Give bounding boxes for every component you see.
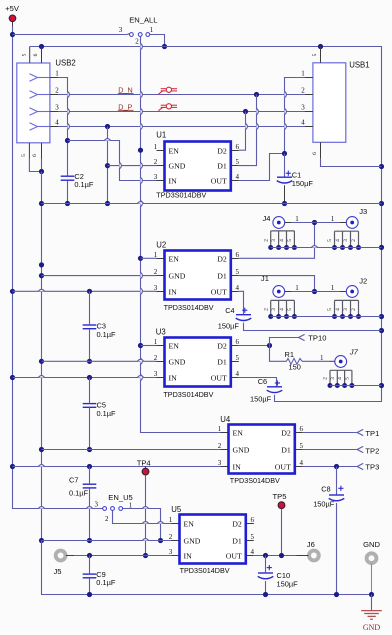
wire C2 to GND bus bbox=[67, 181, 69, 204]
svg-text:4: 4 bbox=[279, 239, 285, 242]
node D_P/U1 D2 junction bbox=[243, 109, 248, 114]
node J1/J2 VBUS junction bbox=[312, 289, 317, 294]
node right bus/J3 pins bbox=[379, 245, 384, 250]
svg-text:1: 1 bbox=[320, 354, 324, 362]
ferrite symbol on D_P bbox=[158, 104, 177, 111]
node GND/U4 GND bus tap bbox=[39, 447, 44, 452]
wire C3 vertical bbox=[89, 291, 91, 361]
svg-text:5: 5 bbox=[345, 377, 351, 380]
svg-text:4: 4 bbox=[55, 119, 59, 127]
svg-text:TP3: TP3 bbox=[365, 463, 379, 472]
wire EN_U5 pin2 to U5 EN bbox=[113, 511, 172, 524]
capacitor C4 bbox=[218, 306, 252, 331]
wire U4 D2 to TP1 bbox=[303, 432, 357, 434]
svg-text:D2: D2 bbox=[217, 341, 227, 350]
wire U4 GND line bbox=[42, 449, 221, 451]
svg-text:TPD3S014DBV: TPD3S014DBV bbox=[164, 303, 215, 312]
connector J5 bbox=[54, 551, 75, 577]
testpoint TP10 bbox=[299, 334, 327, 343]
node C5 top junction bbox=[87, 375, 92, 380]
svg-text:5: 5 bbox=[327, 308, 333, 311]
wire U3 GND line bbox=[42, 360, 157, 362]
svg-text:3: 3 bbox=[55, 104, 59, 112]
svg-text:GND: GND bbox=[184, 536, 201, 545]
wire C5 vertical bbox=[89, 378, 91, 450]
svg-text:150µF: 150µF bbox=[292, 179, 314, 188]
node EN/U1 EN junction bbox=[138, 148, 143, 153]
node GND bus/USB1 pin5 bbox=[318, 44, 323, 49]
svg-text:150µF: 150µF bbox=[313, 499, 335, 508]
svg-text:J4: J4 bbox=[263, 214, 271, 223]
connector USB1 pin stubs bbox=[301, 70, 313, 127]
svg-text:5: 5 bbox=[236, 354, 240, 362]
svg-text:2: 2 bbox=[154, 354, 158, 362]
node GND stray junction bbox=[39, 262, 44, 267]
svg-text:5: 5 bbox=[327, 239, 333, 242]
label J4 pin1 bbox=[295, 215, 299, 223]
wire EN_ALL pin1 to GND bus bbox=[150, 35, 165, 47]
svg-text:IN: IN bbox=[169, 176, 178, 185]
wire U4 D1 to TP2 bbox=[303, 449, 357, 451]
node GND/U2 GND tap bbox=[39, 273, 44, 278]
wire U3 EN line bbox=[141, 345, 157, 347]
svg-text:0.1µF: 0.1µF bbox=[97, 409, 117, 418]
svg-text:TPD3S014DBV: TPD3S014DBV bbox=[156, 191, 207, 200]
capacitor C8 bbox=[313, 484, 344, 508]
node right bus/C4 return bbox=[379, 328, 384, 333]
capacitor C5 bbox=[83, 400, 116, 418]
connector USB2 shield pins top bbox=[21, 47, 41, 64]
node VBUS/U1 IN branch bbox=[65, 138, 70, 143]
capacitor C1 bbox=[277, 171, 314, 189]
svg-text:OUT: OUT bbox=[211, 287, 227, 296]
wire +5V to EN_ALL pin3 bbox=[13, 33, 130, 36]
wire U3 IN line (+5V) bbox=[13, 377, 157, 379]
connector USB2 shield pins bottom bbox=[21, 143, 42, 159]
svg-text:IN: IN bbox=[169, 373, 178, 382]
connector USB1 body bbox=[313, 60, 370, 142]
jumper EN_ALL bbox=[119, 16, 158, 46]
node right bus/J2 pins bbox=[379, 314, 384, 319]
svg-text:6: 6 bbox=[251, 516, 255, 524]
wire D_N net bbox=[58, 94, 313, 96]
svg-text:GND: GND bbox=[169, 357, 186, 366]
node C9/bottom bus bbox=[87, 592, 92, 597]
label D_P bbox=[118, 102, 134, 111]
svg-text:3: 3 bbox=[218, 459, 222, 467]
svg-text:3: 3 bbox=[343, 239, 349, 242]
svg-text:U5: U5 bbox=[171, 505, 182, 514]
connector J6 bbox=[297, 540, 319, 560]
svg-text:4: 4 bbox=[279, 308, 285, 311]
node GND/mid bus bbox=[39, 201, 44, 206]
svg-text:3: 3 bbox=[301, 104, 305, 112]
svg-text:D1: D1 bbox=[217, 271, 227, 280]
node D_N/U1 D1 junction bbox=[254, 92, 259, 97]
ground symbol bbox=[361, 595, 382, 632]
svg-text:3: 3 bbox=[271, 308, 277, 311]
svg-text:EN: EN bbox=[169, 341, 180, 350]
svg-text:4: 4 bbox=[335, 239, 341, 242]
wire pin4 GND row bbox=[58, 126, 313, 128]
svg-text:IN: IN bbox=[184, 551, 193, 560]
svg-text:TP10: TP10 bbox=[308, 334, 326, 343]
svg-text:TP1: TP1 bbox=[365, 429, 379, 438]
svg-text:TP4: TP4 bbox=[137, 458, 151, 467]
svg-text:USB1: USB1 bbox=[349, 60, 369, 69]
svg-text:2: 2 bbox=[351, 308, 357, 311]
svg-text:2: 2 bbox=[301, 87, 305, 95]
svg-text:3: 3 bbox=[154, 370, 158, 378]
svg-text:5: 5 bbox=[21, 154, 27, 157]
wire D2 branch down to R1 bbox=[270, 346, 287, 362]
label J3 pin1 bbox=[331, 215, 335, 223]
svg-text:3: 3 bbox=[330, 377, 336, 380]
wire U4 IN line (+5V) bbox=[13, 466, 221, 468]
node U3 D2 branch bbox=[267, 343, 272, 348]
svg-text:150µF: 150µF bbox=[277, 579, 299, 588]
svg-text:5: 5 bbox=[251, 533, 255, 541]
svg-text:4: 4 bbox=[236, 173, 240, 181]
wire U1 GND line bbox=[108, 165, 157, 167]
testpoint TP5 bbox=[273, 492, 287, 555]
label J1 pin1 bbox=[295, 284, 299, 292]
node +5V/U2 IN tap bbox=[10, 289, 15, 294]
svg-text:150µF: 150µF bbox=[250, 395, 272, 404]
node C2/GND bus bbox=[65, 201, 70, 206]
wire U1 D2 to D_P bbox=[239, 112, 246, 151]
connector USB1 shield pin top bbox=[312, 47, 320, 63]
svg-text:GND: GND bbox=[363, 540, 380, 549]
wire C9 vertical bbox=[89, 556, 91, 595]
svg-text:R1: R1 bbox=[285, 350, 294, 359]
connector J2 bbox=[327, 277, 367, 319]
svg-text:TP5: TP5 bbox=[273, 492, 287, 501]
svg-text:J1: J1 bbox=[261, 274, 269, 283]
wire GND vertical to bottom bus bbox=[42, 541, 372, 595]
svg-text:C7: C7 bbox=[69, 476, 78, 485]
wire U2 EN line bbox=[141, 257, 157, 259]
node GND ring/bottom bus bbox=[369, 592, 374, 597]
op-amp U2 TPD3S014 power switch bbox=[154, 240, 240, 312]
wire EN_U5 pin1 to GND bbox=[123, 509, 161, 541]
svg-text:J7: J7 bbox=[349, 347, 359, 356]
svg-text:D2: D2 bbox=[217, 254, 227, 263]
svg-text:0.1µF: 0.1µF bbox=[96, 578, 116, 587]
svg-text:D2: D2 bbox=[217, 146, 227, 155]
wire U3 D2 line bbox=[239, 345, 270, 347]
capacitor C9 bbox=[83, 570, 116, 587]
svg-text:OUT: OUT bbox=[226, 551, 242, 560]
capacitor C2 bbox=[61, 172, 94, 189]
connector J4 bbox=[263, 214, 297, 250]
svg-text:TPD3S014DBV: TPD3S014DBV bbox=[180, 566, 231, 575]
node +5V/U4 IN tap bbox=[10, 464, 15, 469]
wire U4 OUT to TP3 bbox=[303, 466, 357, 468]
wire VBUS to U1 IN bbox=[68, 141, 157, 181]
svg-text:1: 1 bbox=[169, 516, 173, 524]
svg-text:6: 6 bbox=[236, 143, 240, 151]
wire U2 D2 to J4/J3 VBUS bbox=[239, 223, 315, 259]
svg-text:0.1µF: 0.1µF bbox=[74, 180, 94, 189]
svg-text:2: 2 bbox=[55, 87, 59, 95]
svg-text:D1: D1 bbox=[217, 161, 227, 170]
wire top GND bus bbox=[30, 47, 382, 402]
wire C8 to bottom bus bbox=[336, 503, 338, 595]
svg-text:2: 2 bbox=[263, 308, 269, 311]
wire D_P net bbox=[58, 111, 313, 113]
svg-text:J6: J6 bbox=[307, 540, 315, 549]
wire +5V rail vertical bbox=[13, 26, 104, 509]
connector J1 bbox=[261, 274, 297, 319]
svg-text:1: 1 bbox=[154, 143, 158, 151]
node C1/GND bus bbox=[282, 201, 287, 206]
node EN/U3 EN junction bbox=[138, 343, 143, 348]
svg-text:5: 5 bbox=[236, 268, 240, 276]
svg-text:0.1µF: 0.1µF bbox=[69, 488, 89, 497]
wire U2 OUT to C4 bbox=[239, 291, 244, 314]
wire U5 GND line bbox=[42, 540, 172, 542]
svg-text:1: 1 bbox=[154, 338, 158, 346]
svg-text:GND: GND bbox=[169, 271, 186, 280]
svg-text:U2: U2 bbox=[156, 240, 166, 249]
wire J4 to J3 VBUS bbox=[285, 222, 347, 224]
op-amp U1 TPD3S014 power switch bbox=[154, 130, 240, 199]
capacitor C7 bbox=[69, 476, 96, 498]
label D_N bbox=[118, 86, 134, 95]
svg-text:2: 2 bbox=[154, 158, 158, 166]
node +5V/U3 IN tap bbox=[10, 375, 15, 380]
svg-text:C6: C6 bbox=[258, 377, 267, 386]
svg-text:3: 3 bbox=[271, 239, 277, 242]
wire C4 to right bus bbox=[244, 323, 382, 331]
testpoint TP1 bbox=[357, 429, 379, 438]
node GND/U5 GND tap bbox=[39, 538, 44, 543]
svg-text:OUT: OUT bbox=[275, 462, 291, 471]
wire C10 leads bbox=[265, 556, 267, 595]
svg-text:U3: U3 bbox=[156, 327, 166, 336]
svg-text:USB2: USB2 bbox=[55, 59, 75, 68]
svg-text:4: 4 bbox=[335, 308, 341, 311]
svg-text:3: 3 bbox=[94, 500, 98, 508]
node GND/U3 GND tap bbox=[39, 359, 44, 364]
connector J3 bbox=[327, 207, 367, 250]
wire C7 vertical bbox=[89, 467, 91, 541]
label J7 pin1 bbox=[320, 354, 324, 362]
node EN/U2 EN junction bbox=[138, 256, 143, 261]
wire C8 top lead bbox=[336, 467, 338, 495]
node C9 top junction bbox=[87, 553, 92, 558]
wire C1 top lead bbox=[284, 154, 286, 178]
wire C1 to GND bus bbox=[284, 185, 286, 203]
svg-text:2: 2 bbox=[323, 377, 329, 380]
capacitor C10 bbox=[258, 565, 298, 588]
svg-text:EN: EN bbox=[184, 519, 195, 528]
node pin4 GND/U1 GND junction bbox=[105, 163, 110, 168]
svg-text:D1: D1 bbox=[217, 357, 227, 366]
node C10 top junction bbox=[263, 553, 268, 558]
node pin4 GND/mid GND bus bbox=[105, 201, 110, 206]
node C7/U5 GND line bbox=[87, 538, 92, 543]
svg-text:2: 2 bbox=[154, 268, 158, 276]
wire left GND vertical bbox=[41, 172, 43, 541]
wire EN net vertical bbox=[141, 37, 221, 433]
node U1 OUT/USB1 VBUS/C1 bbox=[282, 151, 287, 156]
svg-text:1: 1 bbox=[55, 70, 59, 78]
wire J4/J3 pins to right bus bbox=[271, 247, 382, 249]
wire pin4 to U1 GND bbox=[107, 127, 109, 204]
svg-text:OUT: OUT bbox=[211, 373, 227, 382]
node C3 top junction bbox=[87, 289, 92, 294]
svg-text:1: 1 bbox=[331, 284, 335, 292]
wire USB1 shield to right bus bbox=[321, 159, 382, 167]
testpoint TP3 bbox=[357, 463, 379, 472]
svg-text:2: 2 bbox=[135, 38, 139, 46]
wire J7 pins to right bus bbox=[330, 385, 382, 387]
svg-text:EN: EN bbox=[169, 254, 180, 263]
wire J1/J2 pins to right bus bbox=[271, 316, 382, 318]
node J4/J3 VBUS junction bbox=[312, 220, 317, 225]
power +5V symbol bbox=[5, 4, 20, 26]
svg-text:GND: GND bbox=[233, 445, 250, 454]
jumper EN_U5 bbox=[94, 493, 132, 523]
svg-text:GND: GND bbox=[363, 623, 381, 632]
svg-text:D2: D2 bbox=[281, 428, 291, 437]
svg-text:1: 1 bbox=[154, 251, 158, 259]
svg-text:5: 5 bbox=[236, 158, 240, 166]
svg-text:2: 2 bbox=[218, 442, 222, 450]
svg-text:TP2: TP2 bbox=[365, 446, 379, 455]
wire U5 OUT line bbox=[254, 555, 297, 557]
node C8 top junction bbox=[334, 464, 339, 469]
node C10/bottom bus bbox=[263, 592, 268, 597]
svg-text:D2: D2 bbox=[232, 519, 242, 528]
testpoint TP4 bbox=[137, 458, 151, 475]
node right bus/J7 pins bbox=[379, 383, 384, 388]
svg-text:1: 1 bbox=[218, 425, 222, 433]
connector GND ring bbox=[363, 540, 380, 594]
svg-text:TPD3S014DBV: TPD3S014DBV bbox=[163, 390, 214, 399]
resistor R1 bbox=[285, 350, 303, 371]
svg-text:4: 4 bbox=[337, 377, 343, 380]
svg-text:C8: C8 bbox=[321, 484, 330, 493]
node TP4/U5 IN junction bbox=[143, 553, 148, 558]
svg-text:EN_ALL: EN_ALL bbox=[129, 16, 157, 25]
wire USB1 pin1 vertical bbox=[285, 78, 313, 154]
svg-text:5: 5 bbox=[21, 53, 27, 56]
svg-text:1: 1 bbox=[150, 26, 154, 34]
capacitor C3 bbox=[83, 322, 116, 340]
node pin4/U1 GND branch bbox=[105, 124, 110, 129]
wire U3 OUT to C6 bbox=[239, 378, 277, 387]
connector J7 bbox=[323, 347, 359, 388]
node EN_U5 pin1/U5 GND junction bbox=[158, 538, 163, 543]
wire U1 D1 to D_N bbox=[239, 95, 257, 166]
svg-text:6: 6 bbox=[33, 53, 39, 56]
svg-text:J5: J5 bbox=[54, 567, 62, 576]
label J2 pin1 bbox=[331, 284, 335, 292]
svg-text:5: 5 bbox=[287, 239, 293, 242]
svg-text:1: 1 bbox=[331, 215, 335, 223]
svg-text:2: 2 bbox=[351, 239, 357, 242]
node right bus/mid GND bus bbox=[379, 201, 384, 206]
connector USB1 shield pin bottom bbox=[312, 142, 321, 159]
node C8/bottom bus bbox=[334, 592, 339, 597]
wire U1 OUT to VBUS node bbox=[239, 154, 285, 181]
svg-text:TPD3S014DBV: TPD3S014DBV bbox=[230, 476, 281, 485]
svg-text:+5V: +5V bbox=[5, 4, 20, 13]
wire C6 to right bus end bbox=[275, 395, 382, 402]
wire U2 D1 to J1/J2 VBUS bbox=[239, 276, 315, 292]
node USB2 shield junction bbox=[39, 169, 44, 174]
node C3/U3 GND line bbox=[87, 359, 92, 364]
svg-text:J2: J2 bbox=[359, 277, 367, 286]
svg-text:3: 3 bbox=[343, 308, 349, 311]
svg-text:OUT: OUT bbox=[211, 176, 227, 185]
op-amp U4 TPD3S014 power switch bbox=[218, 415, 304, 485]
wire to TP10 bbox=[270, 338, 299, 346]
svg-text:EN: EN bbox=[169, 146, 180, 155]
svg-text:IN: IN bbox=[233, 462, 242, 471]
svg-text:C4: C4 bbox=[225, 306, 234, 315]
svg-text:6: 6 bbox=[32, 154, 38, 157]
svg-text:5: 5 bbox=[287, 308, 293, 311]
wire crossover hops bbox=[38, 43, 317, 540]
svg-text:5: 5 bbox=[312, 53, 318, 56]
capacitor C6 bbox=[250, 377, 282, 403]
wire R1 to J7 bbox=[302, 360, 335, 362]
wire U5 IN line bbox=[67, 555, 171, 557]
svg-text:EN: EN bbox=[233, 428, 244, 437]
svg-text:2: 2 bbox=[263, 239, 269, 242]
svg-text:3: 3 bbox=[119, 26, 123, 34]
svg-text:2: 2 bbox=[169, 533, 173, 541]
svg-text:3: 3 bbox=[154, 173, 158, 181]
ferrite symbol on D_N bbox=[158, 87, 177, 94]
svg-text:2: 2 bbox=[105, 515, 109, 523]
wire mid GND bus bbox=[42, 203, 382, 205]
svg-text:GND: GND bbox=[169, 161, 186, 170]
svg-text:6: 6 bbox=[312, 152, 318, 155]
node +5V/EN_ALL tap bbox=[10, 32, 15, 37]
wire J1 to J2 VBUS bbox=[285, 291, 347, 293]
svg-text:4: 4 bbox=[301, 119, 305, 127]
svg-text:D1: D1 bbox=[281, 445, 291, 454]
svg-text:1: 1 bbox=[301, 70, 305, 78]
node GND bus/USB2 pin6 bbox=[39, 44, 44, 49]
node EN_ALL pin1/GND bus junction bbox=[162, 44, 167, 49]
wire U2 IN line (+5V) bbox=[13, 290, 157, 292]
wire U2 GND line bbox=[42, 275, 157, 277]
svg-text:3: 3 bbox=[154, 284, 158, 292]
testpoint TP2 bbox=[357, 446, 379, 455]
svg-text:D1: D1 bbox=[232, 536, 242, 545]
connector USB2 body bbox=[17, 59, 76, 143]
connector USB2 pin stubs right bbox=[50, 70, 59, 127]
node C5/GND bus 449 bbox=[87, 447, 92, 452]
node right bus/USB1 shield bbox=[379, 164, 384, 169]
op-amp U5 TPD3S014 power switch bbox=[169, 505, 255, 575]
svg-text:1: 1 bbox=[295, 215, 299, 223]
svg-text:3: 3 bbox=[169, 548, 173, 556]
svg-text:IN: IN bbox=[169, 287, 178, 296]
wire USB2 shield bottom to GND vertical bbox=[29, 159, 41, 172]
wire USB2 VBUS staircase bbox=[58, 78, 68, 176]
node TP5/U5 OUT junction bbox=[279, 553, 284, 558]
svg-text:U4: U4 bbox=[220, 415, 231, 424]
svg-text:0.1µF: 0.1µF bbox=[97, 330, 117, 339]
node C7 top junction bbox=[87, 464, 92, 469]
